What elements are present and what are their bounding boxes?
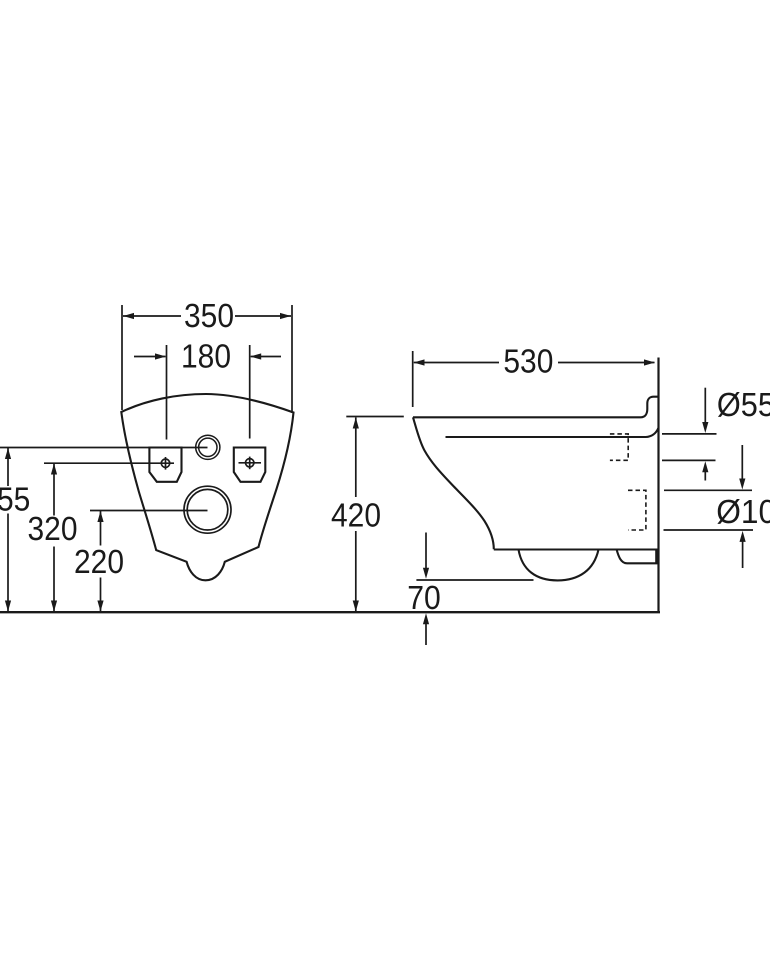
outlet pipe wall flange [655,550,659,563]
right fixing hole [234,448,265,482]
toilet side-view bottom edge [494,548,658,550]
dim 180 arrow right [250,353,261,359]
dim 350 arrow left [123,313,134,319]
right fixing bolt [239,457,262,470]
concealed inlet pipe (dashed) [610,434,628,460]
floor datum line [0,611,660,613]
leader line drain level [90,510,208,512]
toilet trap bulge [519,550,599,581]
dim 70 arrow up [423,613,429,645]
dim 530 arrow right [644,359,655,365]
dim 350 extension line left [121,305,123,410]
dim 350 line [123,315,291,317]
dim 180 line right [251,356,281,358]
dim 355 arrow down [5,601,11,612]
dim 220 arrow down [97,601,103,612]
toilet outlet pipe to wall [617,550,659,564]
dim 530 line [414,362,655,364]
dim 180 line left [134,356,166,358]
dim 220 line [100,511,102,611]
large drain circle (inner) [187,489,228,530]
dim 530 extension line [412,351,414,407]
toilet side-view top edge with rear lip [413,397,659,418]
dim 420 reference line [346,416,404,418]
dim 320 arrow up [51,464,57,475]
dim 180 extension line right [249,345,251,439]
small flush hole circle (inner) [199,438,217,456]
svg-text:70: 70 [407,580,441,617]
dim 180 extension line left [166,345,168,440]
toilet side-view front profile [413,417,494,549]
leader line inlet bottom [662,459,716,461]
svg-text:320: 320 [27,511,77,548]
dim O100 arrow up [740,531,746,568]
dim 70 reference line [416,579,533,581]
svg-text:220: 220 [74,544,124,581]
dim 320 arrow down [51,601,57,612]
dim 355 line [7,448,9,611]
dim 350 arrow right [280,313,291,319]
svg-text:355: 355 [0,481,30,518]
toilet rear-view outline [121,394,293,580]
leader line outlet top [664,489,752,491]
dim O55 arrow up [702,461,708,480]
left fixing bolt [161,457,169,470]
dim O100 arrow down [739,445,745,490]
small flush hole circle (outer) [196,435,220,459]
leader line flush hole level [0,447,208,449]
dim 420 arrow down [353,601,359,612]
dim 320 line [53,464,55,612]
svg-text:350: 350 [184,298,234,335]
svg-text:Ø55: Ø55 [717,387,770,424]
leader line bolt level [44,462,174,464]
dim 70 arrow down [423,533,429,579]
svg-text:420: 420 [331,497,381,534]
dim 530 arrow left [414,359,425,365]
wall line [657,358,659,614]
dim 420 line [355,418,357,612]
dim 350 extension line right [291,305,293,413]
svg-text:530: 530 [503,343,553,380]
toilet seat surface line [446,428,659,437]
dim 355 arrow up [5,448,11,459]
dim 180 arrow left [155,353,166,359]
leader line inlet top [662,433,717,435]
left fixing hole [149,448,181,482]
leader line outlet bottom [664,529,754,531]
svg-text:180: 180 [181,338,231,375]
large drain circle (outer) [184,486,231,533]
dim O55 arrow down [702,388,708,433]
dim 420 arrow up [353,418,359,429]
concealed outlet pipe (dashed) [628,490,646,530]
dim 220 arrow up [97,511,103,522]
svg-text:Ø100: Ø100 [716,494,770,531]
